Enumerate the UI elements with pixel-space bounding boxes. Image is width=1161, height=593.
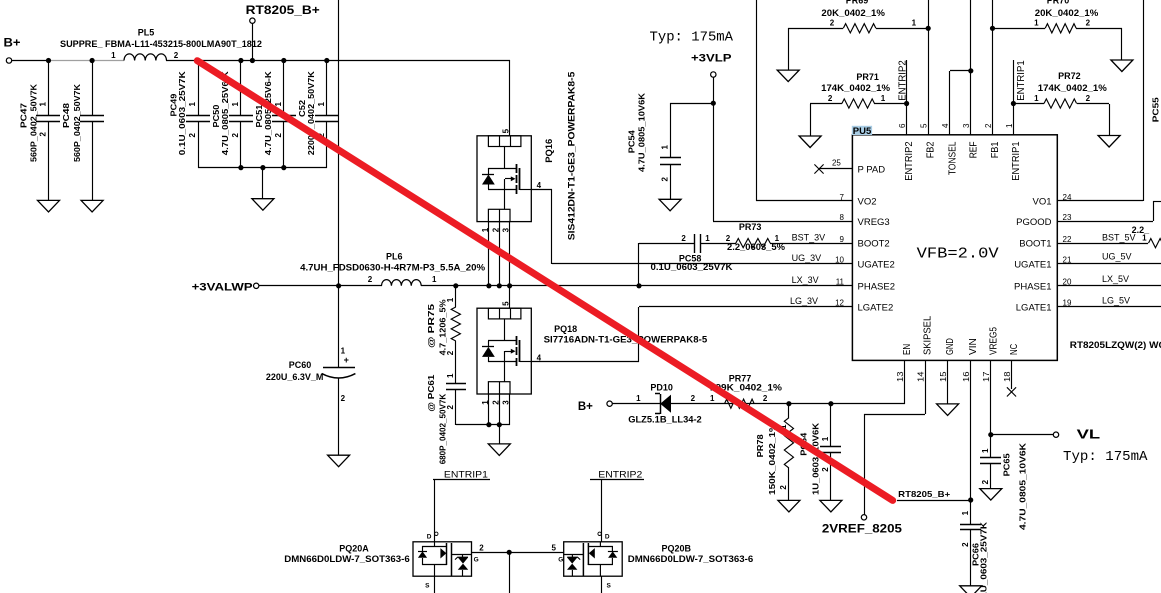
svg-text:SI7716ADN-T1-GE3_POWERPAK8-5: SI7716ADN-T1-GE3_POWERPAK8-5 bbox=[544, 335, 708, 345]
svg-text:174K_0402_1%: 174K_0402_1% bbox=[821, 83, 890, 93]
svg-text:4.7U_0805_25V6-K: 4.7U_0805_25V6-K bbox=[263, 70, 273, 155]
svg-text:VL: VL bbox=[1077, 427, 1101, 441]
svg-text:G: G bbox=[474, 557, 479, 564]
svg-text:D: D bbox=[427, 534, 432, 541]
svg-text:PR69: PR69 bbox=[846, 0, 869, 6]
svg-text:680P_0402_50V7K: 680P_0402_50V7K bbox=[437, 393, 447, 464]
wire SKIPSEL 2VREF bbox=[822, 360, 926, 535]
net VL terminal bbox=[1053, 427, 1100, 441]
svg-text:12: 12 bbox=[835, 299, 844, 308]
pin 10 UGATE2 label bbox=[835, 256, 895, 271]
svg-text:RT8205_B+: RT8205_B+ bbox=[898, 489, 950, 499]
svg-text:2: 2 bbox=[341, 394, 346, 403]
net LG_3V bbox=[790, 296, 818, 306]
svg-text:1: 1 bbox=[341, 347, 346, 356]
svg-text:11: 11 bbox=[836, 278, 845, 287]
transistor PQ16 bbox=[477, 71, 578, 240]
svg-text:RT8205_B+: RT8205_B+ bbox=[246, 5, 320, 17]
pin 14 SKIPSEL label bbox=[917, 316, 934, 382]
svg-text:LG_3V: LG_3V bbox=[790, 296, 818, 306]
capacitor PC65 bbox=[980, 442, 1028, 530]
pin 17 VREG5 label bbox=[982, 327, 999, 382]
svg-text:2: 2 bbox=[961, 542, 970, 547]
ground PR72 bbox=[1098, 136, 1120, 148]
svg-text:PC47: PC47 bbox=[19, 103, 29, 128]
ground PC66 bbox=[960, 586, 982, 593]
svg-text:2: 2 bbox=[1086, 94, 1091, 103]
svg-text:PR72: PR72 bbox=[1058, 71, 1081, 81]
svg-text:2: 2 bbox=[821, 467, 830, 472]
svg-text:15: 15 bbox=[939, 371, 948, 382]
pin 6 ENTRIP2 label bbox=[898, 123, 915, 181]
svg-text:2: 2 bbox=[479, 544, 484, 553]
svg-text:2: 2 bbox=[1086, 19, 1091, 28]
svg-text:4.7U_0805_10V6K: 4.7U_0805_10V6K bbox=[637, 92, 647, 172]
svg-text:BST_3V: BST_3V bbox=[792, 232, 826, 242]
svg-text:2: 2 bbox=[763, 394, 768, 403]
net RT8205_B+ terminal bbox=[246, 5, 320, 63]
svg-text:PC54: PC54 bbox=[627, 130, 637, 153]
wire LGATE1 LG_5V bbox=[1057, 295, 1161, 306]
wire B+ rail bbox=[12, 60, 510, 136]
pin 24 VO1 label bbox=[1032, 193, 1071, 208]
net label ENTRIP2 stub bbox=[598, 469, 642, 479]
svg-text:1: 1 bbox=[432, 275, 437, 284]
net label ENTRIP1 bbox=[1015, 60, 1027, 101]
svg-text:GLZ5.1B_LL34-2: GLZ5.1B_LL34-2 bbox=[628, 414, 702, 424]
svg-text:PC60: PC60 bbox=[289, 360, 312, 370]
wire VREG5 pin17 bbox=[988, 360, 1053, 457]
svg-text:PU5: PU5 bbox=[853, 126, 872, 137]
ground GND pin15 bbox=[937, 360, 959, 415]
pin 2 FB1 label bbox=[984, 123, 1001, 158]
wire +3VLP to VREG3 bbox=[711, 77, 852, 222]
svg-text:SIS412DN-T1-GE3_POWERPAK8-5: SIS412DN-T1-GE3_POWERPAK8-5 bbox=[567, 71, 578, 240]
pin 12 LGATE2 label bbox=[835, 299, 893, 314]
svg-text:PR78: PR78 bbox=[755, 434, 765, 457]
ground PC47 bbox=[38, 200, 60, 212]
svg-text:2: 2 bbox=[981, 479, 990, 484]
pin 9 BOOT2 label bbox=[840, 235, 890, 250]
wire BOOT2 row bbox=[639, 243, 852, 245]
pin 19 LGATE1 label bbox=[1016, 299, 1072, 314]
svg-text:S: S bbox=[607, 583, 612, 590]
svg-text:NC: NC bbox=[1008, 343, 1020, 355]
net BST_3V bbox=[792, 232, 826, 242]
wire PQ18 pins 1-3 bbox=[489, 394, 510, 425]
svg-text:4.7UH_FDSD0630-H-4R7M-P3_5.5A_: 4.7UH_FDSD0630-H-4R7M-P3_5.5A_20% bbox=[300, 263, 485, 273]
resistor PR70 bbox=[992, 0, 1122, 60]
net B+ terminal 2 bbox=[578, 401, 612, 413]
wire EN pin13 bbox=[612, 360, 905, 404]
capacitor PC55 label bbox=[1151, 97, 1161, 122]
pin 22 BOOT1 label bbox=[1019, 235, 1072, 250]
svg-text:LX_3V: LX_3V bbox=[792, 275, 819, 285]
net LX_3V bbox=[792, 275, 819, 285]
svg-text:4.7_1206_5%: 4.7_1206_5% bbox=[437, 299, 447, 355]
svg-text:LGATE2: LGATE2 bbox=[858, 303, 894, 314]
capacitor PC58 bbox=[651, 234, 734, 272]
svg-text:1: 1 bbox=[636, 394, 641, 403]
transistor PQ20A bbox=[284, 480, 490, 593]
pin 8 VREG3 label bbox=[840, 213, 890, 228]
wire LX_3V rail bbox=[259, 285, 852, 287]
pin 16 VIN label bbox=[962, 338, 979, 382]
pin 7 VO2 label bbox=[840, 193, 877, 208]
transistor PQ20B bbox=[552, 480, 754, 593]
svg-text:1: 1 bbox=[317, 102, 326, 107]
svg-text:174K_0402_1%: 174K_0402_1% bbox=[1038, 83, 1107, 93]
wire PQ16 gate UG_3V bbox=[531, 189, 852, 264]
svg-text:1: 1 bbox=[912, 19, 917, 28]
svg-text:PHASE1: PHASE1 bbox=[1014, 281, 1052, 292]
svg-text:PC65: PC65 bbox=[1001, 453, 1011, 476]
wire cap bank bottom bbox=[198, 165, 327, 170]
svg-text:9: 9 bbox=[840, 235, 845, 244]
svg-text:PHASE2: PHASE2 bbox=[858, 281, 896, 292]
svg-text:LG_5V: LG_5V bbox=[1102, 295, 1130, 305]
svg-text:1: 1 bbox=[1005, 123, 1014, 128]
ground PC48 bbox=[81, 200, 103, 212]
resistor PR69 bbox=[788, 0, 928, 70]
pin 20 PHASE1 label bbox=[1014, 278, 1072, 293]
svg-text:150K_0402_1%: 150K_0402_1% bbox=[767, 422, 777, 495]
resistor PR72 bbox=[1013, 71, 1110, 136]
wire PQ16 pins 1-3 to LX rail bbox=[486, 222, 512, 288]
svg-text:ENTRIP1: ENTRIP1 bbox=[1010, 141, 1022, 180]
capacitor PC47 bbox=[19, 58, 60, 200]
svg-text:ENTRIP2: ENTRIP2 bbox=[896, 60, 908, 101]
svg-text:PL5: PL5 bbox=[138, 28, 155, 38]
wire VIN pin16 bbox=[968, 360, 973, 524]
svg-text:+3VALWP: +3VALWP bbox=[192, 281, 253, 293]
svg-text:20K_0402_1%: 20K_0402_1% bbox=[821, 8, 885, 18]
svg-text:23: 23 bbox=[1063, 213, 1072, 222]
svg-text:PQ20B: PQ20B bbox=[661, 543, 691, 553]
pin 11 PHASE2 label bbox=[836, 278, 895, 293]
resistor PR77 bbox=[710, 373, 782, 408]
svg-text:2: 2 bbox=[274, 133, 283, 138]
capacitor PC48 bbox=[61, 58, 104, 200]
svg-text:1: 1 bbox=[111, 51, 116, 60]
svg-text:+: + bbox=[344, 355, 349, 365]
svg-text:DMN66D0LDW-7_SOT363-6: DMN66D0LDW-7_SOT363-6 bbox=[628, 554, 754, 564]
svg-text:2: 2 bbox=[231, 133, 240, 138]
svg-text:2: 2 bbox=[779, 485, 788, 490]
op-amp U1 PU5 IC body bbox=[852, 126, 1161, 361]
svg-text:13: 13 bbox=[896, 371, 905, 382]
svg-text:5: 5 bbox=[552, 544, 557, 553]
wire PQ18 source rail bbox=[456, 422, 510, 427]
text Typ 175mA top bbox=[650, 30, 734, 45]
svg-text:1: 1 bbox=[188, 102, 197, 107]
svg-text:25: 25 bbox=[832, 159, 841, 168]
wire REF pin3 bbox=[970, 0, 972, 135]
svg-text:2: 2 bbox=[691, 394, 696, 403]
svg-text:BOOT1: BOOT1 bbox=[1019, 239, 1051, 250]
svg-text:5: 5 bbox=[502, 128, 511, 133]
svg-text:DMN66D0LDW-7_SOT363-6: DMN66D0LDW-7_SOT363-6 bbox=[284, 554, 410, 564]
svg-text:TONSEL: TONSEL bbox=[946, 141, 958, 175]
ground PR78 bbox=[778, 500, 800, 512]
svg-text:1: 1 bbox=[446, 373, 455, 378]
ground PR71 bbox=[799, 136, 821, 148]
svg-text:1: 1 bbox=[881, 94, 886, 103]
wire BOOT1 BST_5V bbox=[1057, 225, 1161, 248]
svg-text:PL6: PL6 bbox=[386, 252, 403, 262]
svg-text:BOOT2: BOOT2 bbox=[858, 239, 890, 250]
ground PR69 bbox=[777, 70, 799, 82]
ground PC60 bbox=[328, 455, 350, 467]
svg-text:REF: REF bbox=[967, 142, 979, 159]
svg-text:PR71: PR71 bbox=[856, 72, 879, 82]
wire ENTRIP2 pin6 bbox=[904, 60, 909, 135]
svg-text:3: 3 bbox=[962, 123, 971, 128]
svg-text:ENTRIP1: ENTRIP1 bbox=[1015, 60, 1027, 101]
svg-text:PQ18: PQ18 bbox=[554, 324, 577, 334]
resistor PR73 bbox=[726, 222, 785, 252]
svg-text:1: 1 bbox=[231, 102, 240, 107]
wire PHASE1 LX_5V bbox=[1057, 274, 1161, 285]
pin 18 NC label bbox=[1003, 343, 1020, 382]
wire RT8205_B+ net bbox=[897, 489, 971, 500]
svg-text:20K_0402_1%: 20K_0402_1% bbox=[1035, 8, 1099, 18]
svg-text:GND: GND bbox=[944, 338, 956, 355]
wire FB2 pin5 bbox=[926, 0, 931, 135]
svg-text:VFB=2.0V: VFB=2.0V bbox=[917, 245, 999, 262]
resistor PR78 bbox=[755, 401, 794, 500]
svg-text:2: 2 bbox=[830, 19, 835, 28]
ground PR70 bbox=[1111, 60, 1133, 72]
svg-text:PC55: PC55 bbox=[1151, 97, 1161, 122]
svg-text:@ PR75: @ PR75 bbox=[426, 304, 436, 348]
svg-text:560P_0402_50V7K: 560P_0402_50V7K bbox=[28, 83, 38, 162]
svg-text:2.2_: 2.2_ bbox=[1132, 225, 1151, 235]
resistor PR71 bbox=[810, 72, 907, 136]
capacitor PC66 bbox=[960, 510, 988, 593]
svg-text:FB2: FB2 bbox=[925, 141, 937, 158]
svg-text:2: 2 bbox=[174, 51, 179, 60]
net +3VALWP terminal bbox=[192, 281, 259, 293]
svg-text:PR70: PR70 bbox=[1047, 0, 1070, 6]
ground PC64 bbox=[820, 500, 842, 512]
svg-text:220U_6.3V_M: 220U_6.3V_M bbox=[266, 372, 324, 382]
svg-text:1: 1 bbox=[1034, 19, 1039, 28]
pin 4 TONSEL label bbox=[941, 123, 958, 175]
svg-text:FB1: FB1 bbox=[989, 141, 1001, 158]
svg-text:@ PC61: @ PC61 bbox=[426, 374, 436, 411]
svg-text:Typ: 175mA: Typ: 175mA bbox=[650, 30, 734, 45]
net label ENTRIP2 bbox=[896, 60, 908, 101]
svg-text:S: S bbox=[425, 583, 430, 590]
inductor PL6 bbox=[300, 252, 485, 289]
svg-text:VREG3: VREG3 bbox=[858, 217, 890, 228]
svg-text:PC48: PC48 bbox=[61, 103, 71, 128]
svg-text:SUPPRE_ FBMA-L11-453215-800LMA: SUPPRE_ FBMA-L11-453215-800LMA90T_1812 bbox=[60, 39, 262, 49]
wire TONSEL pin4 bbox=[950, 68, 974, 135]
svg-text:1: 1 bbox=[274, 102, 283, 107]
capacitor PC61 bbox=[426, 373, 466, 464]
svg-text:LGATE1: LGATE1 bbox=[1016, 303, 1052, 314]
pin 5 FB2 label bbox=[920, 123, 937, 158]
svg-text:1: 1 bbox=[821, 436, 830, 441]
transistor PQ18 bbox=[477, 301, 707, 405]
svg-text:B+: B+ bbox=[4, 38, 21, 50]
svg-text:8: 8 bbox=[840, 213, 845, 222]
svg-text:PQ16: PQ16 bbox=[544, 139, 555, 163]
capacitor PC64 bbox=[798, 401, 841, 500]
svg-text:0.1U_0603_25V7K: 0.1U_0603_25V7K bbox=[978, 521, 988, 593]
svg-text:EN: EN bbox=[901, 344, 913, 355]
svg-text:PGOOD: PGOOD bbox=[1016, 217, 1052, 228]
svg-text:2: 2 bbox=[660, 177, 669, 182]
svg-text:1: 1 bbox=[981, 448, 990, 453]
wire ENTRIP1 pin1 bbox=[1011, 60, 1016, 135]
svg-text:UG_5V: UG_5V bbox=[1102, 252, 1132, 262]
svg-text:LX_5V: LX_5V bbox=[1102, 274, 1129, 284]
text Typ 175mA bottom bbox=[1063, 450, 1148, 465]
pin 18 NC no-connect bbox=[1007, 360, 1016, 397]
capacitor PC60 bbox=[266, 286, 356, 455]
svg-text:BST_5V: BST_5V bbox=[1102, 233, 1136, 243]
wire PQ20 gates bbox=[472, 550, 564, 593]
wire UGATE1 UG_5V bbox=[1057, 252, 1161, 264]
svg-text:560P_0402_50V7K: 560P_0402_50V7K bbox=[72, 83, 82, 162]
svg-text:17: 17 bbox=[982, 371, 991, 382]
capacitor PC51 bbox=[254, 58, 296, 168]
wire FB1 pin2 bbox=[990, 0, 995, 135]
svg-text:P PAD: P PAD bbox=[858, 165, 886, 176]
svg-text:2.2_0603_5%: 2.2_0603_5% bbox=[727, 242, 785, 252]
svg-text:18: 18 bbox=[1003, 371, 1012, 382]
svg-text:1U_0603_10V6K: 1U_0603_10V6K bbox=[811, 422, 821, 495]
svg-text:ENTRIP2: ENTRIP2 bbox=[903, 141, 915, 180]
wire VO1 bbox=[1057, 0, 1144, 201]
svg-text:2VREF_8205: 2VREF_8205 bbox=[822, 523, 903, 535]
svg-text:ENTRIP1: ENTRIP1 bbox=[444, 469, 488, 479]
svg-text:1: 1 bbox=[705, 234, 710, 243]
net +3VLP terminal bbox=[691, 53, 732, 78]
svg-text:5: 5 bbox=[920, 123, 929, 128]
svg-text:D: D bbox=[605, 534, 610, 541]
svg-text:16: 16 bbox=[962, 371, 971, 382]
red strike-through line bbox=[197, 61, 892, 501]
svg-text:SKIPSEL: SKIPSEL bbox=[922, 316, 934, 355]
svg-text:VREG5: VREG5 bbox=[987, 327, 999, 355]
svg-text:2: 2 bbox=[984, 123, 993, 128]
svg-text:1: 1 bbox=[961, 510, 970, 515]
ground PQ18 bbox=[488, 425, 510, 455]
pin 15 GND label bbox=[939, 338, 956, 382]
capacitor PC50 bbox=[211, 58, 253, 168]
svg-text:4: 4 bbox=[537, 181, 542, 190]
pin 1 ENTRIP1 label bbox=[1005, 123, 1022, 181]
wire PGOOD bbox=[1057, 201, 1161, 222]
svg-text:VO2: VO2 bbox=[858, 197, 877, 208]
ground PC54 bbox=[659, 199, 681, 211]
ground PC65 bbox=[980, 489, 1002, 501]
net B+ terminal bbox=[4, 38, 21, 64]
capacitor PC54 bbox=[627, 92, 714, 199]
svg-text:2: 2 bbox=[681, 234, 686, 243]
svg-text:UG_3V: UG_3V bbox=[792, 253, 822, 263]
svg-text:+3VLP: +3VLP bbox=[691, 53, 732, 65]
svg-text:1: 1 bbox=[710, 394, 715, 403]
pin 25 P PAD bbox=[814, 159, 885, 176]
pin 21 UGATE1 label bbox=[1014, 256, 1072, 271]
svg-text:Typ: 175mA: Typ: 175mA bbox=[1063, 450, 1148, 465]
svg-text:2: 2 bbox=[39, 132, 48, 137]
diode PD10 bbox=[628, 383, 702, 425]
svg-text:1: 1 bbox=[660, 145, 669, 150]
wire PQ18 pin5 bbox=[509, 286, 511, 308]
resistor PR75 bbox=[426, 286, 460, 384]
net UG_3V bbox=[792, 253, 822, 263]
svg-text:0.1U_0603_25V7K: 0.1U_0603_25V7K bbox=[651, 262, 734, 272]
capacitor PC49 bbox=[168, 58, 210, 168]
inductor PL5 bbox=[60, 28, 262, 61]
svg-text:PR73: PR73 bbox=[739, 222, 762, 232]
wire VO2 bbox=[756, 0, 852, 201]
svg-text:VO1: VO1 bbox=[1032, 197, 1051, 208]
svg-text:2: 2 bbox=[188, 133, 197, 138]
svg-text:4: 4 bbox=[941, 123, 950, 128]
pin 3 REF label bbox=[962, 123, 979, 158]
svg-text:ENTRIP2: ENTRIP2 bbox=[598, 469, 642, 479]
svg-text:10: 10 bbox=[835, 256, 844, 265]
svg-text:G: G bbox=[558, 557, 563, 564]
svg-text:PD10: PD10 bbox=[650, 383, 673, 393]
svg-text:6: 6 bbox=[898, 123, 907, 128]
svg-text:UGATE1: UGATE1 bbox=[1014, 260, 1051, 271]
svg-text:RT8205LZQW(2) WQFN-24L: RT8205LZQW(2) WQFN-24L bbox=[1070, 340, 1161, 350]
svg-text:2: 2 bbox=[828, 94, 833, 103]
wire PC58 to LX bbox=[636, 243, 641, 288]
wire +3VALWP vertical bbox=[336, 0, 341, 288]
ground cap bank bbox=[252, 168, 274, 210]
wire PQ18 gate LG_3V bbox=[531, 307, 852, 363]
capacitor C52 bbox=[297, 58, 339, 168]
pin 23 PGOOD label bbox=[1016, 213, 1072, 228]
svg-text:1: 1 bbox=[1034, 94, 1039, 103]
svg-text:1: 1 bbox=[39, 102, 48, 107]
svg-text:2: 2 bbox=[368, 275, 373, 284]
svg-text:0.1U_0603_25V7K: 0.1U_0603_25V7K bbox=[177, 70, 187, 155]
svg-text:2200P_0402_50V7K: 2200P_0402_50V7K bbox=[306, 70, 316, 155]
svg-text:VIN: VIN bbox=[967, 338, 979, 355]
svg-text:PQ20A: PQ20A bbox=[339, 543, 369, 553]
svg-text:4.7U_0805_10V6K: 4.7U_0805_10V6K bbox=[1018, 442, 1028, 530]
svg-text:22: 22 bbox=[1063, 235, 1072, 244]
svg-text:B+: B+ bbox=[578, 401, 593, 413]
svg-text:14: 14 bbox=[917, 371, 926, 382]
svg-text:UGATE2: UGATE2 bbox=[858, 260, 895, 271]
net label ENTRIP1 stub bbox=[444, 469, 488, 479]
pin 13 EN label bbox=[896, 344, 913, 382]
